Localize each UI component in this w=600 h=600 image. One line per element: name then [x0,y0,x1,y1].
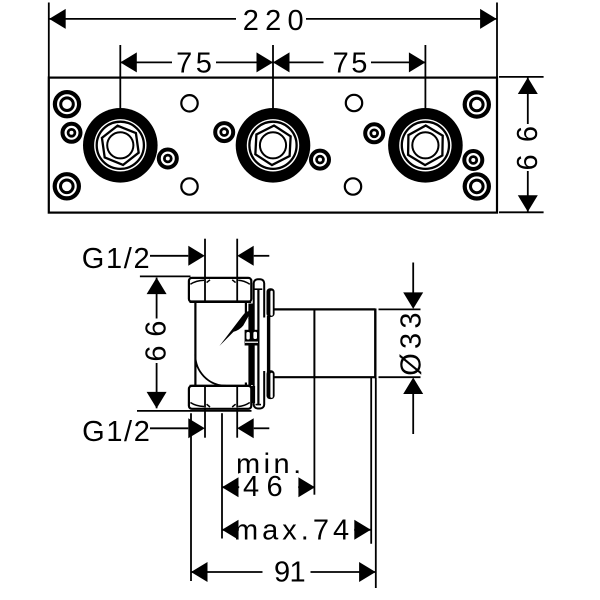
svg-text:46: 46 [243,471,290,503]
flange left black block lower [248,318,253,385]
svg-text:max.74: max.74 [234,515,353,547]
dim O33 extension top [379,308,421,310]
fitting 3 bore circle [412,132,438,158]
ring bottom-right [465,174,489,198]
screw ladder block [245,330,259,346]
fitting 1 ring circle [97,122,144,169]
valve body right edge upper segment [245,302,247,318]
fitting 2 bore circle [260,132,286,158]
dim 66 left arrow up [147,278,167,295]
plain hole bottom between 1-2 [181,178,197,194]
extension 91 right [375,378,377,588]
dim 46 line [222,486,315,488]
fitting 2 hex nut [255,125,291,166]
flange left black block upper [248,304,253,320]
top nut chamfer arcs [190,280,249,285]
svg-text:G1/2: G1/2 [82,243,152,275]
ring top-left [55,92,79,116]
fitting 2 donut [236,108,311,183]
svg-text:91: 91 [274,556,305,588]
dim 66 left arrow down [147,392,167,409]
dim 91 arrow left [191,562,208,582]
dim G1/2 top line right tail [254,255,270,257]
dim G1/2 top arrow right (points left) [237,246,254,266]
extension min-max left (valve axis) [221,413,223,538]
dim 91 line [191,571,376,573]
svg-text:66: 66 [512,114,544,171]
screw dot lower-right of fitting 1 [159,150,177,168]
plain hole top between 1-2 [181,95,197,111]
centerline fitting 2 [272,45,274,112]
dim O33 line upper [412,263,414,296]
centerline fitting 3 [424,45,426,112]
dim O33 arrow down [403,292,423,309]
flow arrow inside valve [219,311,251,346]
dim 66 left extension bottom [137,410,252,412]
dim O33 line lower [412,392,414,434]
protective sleeve right end [374,309,376,379]
G1/2 bottom extension left [204,410,206,438]
flange screw boss bottom [267,370,275,399]
protective sleeve top edge [274,308,375,310]
dim 220 extension line left [48,3,50,78]
plain hole top between 2-3 [346,95,362,111]
plate outline (top view) [49,78,497,213]
plain hole bottom between 2-3 [345,178,361,194]
dim max74 text [234,515,354,547]
dim 220 extension line right [496,3,498,78]
dim 66 right arrow down [518,195,538,212]
svg-text:220: 220 [243,5,310,37]
screw dot upper-left of fitting 2 [215,123,233,141]
dim 220 arrow right [480,9,497,29]
dim G1/2 bottom arrow left (points right) [188,418,205,438]
collar black bar between bosses [267,316,270,373]
protective sleeve bottom edge [274,376,375,378]
fitting 1 bore circle [107,132,133,158]
dim G1/2 bottom arrow right (points left) [237,418,254,438]
dim 46 arrow left [222,477,239,497]
valve body cavity arc [195,354,226,386]
protective sleeve division line [313,309,315,377]
valve body left edge [194,302,196,386]
svg-text:75: 75 [333,48,370,80]
flange left black block bottom [251,386,256,403]
svg-text:66: 66 [141,312,173,362]
valve body right edge lower segment [245,383,247,386]
dim 46 text [239,471,298,503]
dim O33 extension bottom [379,376,421,378]
fitting 1 donut [83,108,158,183]
dim 75 first arrow left [120,52,137,72]
dim 75 first arrow right [257,52,274,72]
screw dot upper-left of fitting 1 [63,124,81,142]
flange screw boss top [267,288,275,317]
svg-text:75: 75 [176,48,215,80]
dim 91 text [263,556,311,588]
dim 220 arrow left [49,9,65,29]
extension 46 right (sleeve division extended) [313,378,315,495]
dim 75 first line [120,61,273,63]
dim max74 arrow left [222,520,239,540]
valve top hex nut [189,278,251,302]
dim 46 arrow right [298,477,315,497]
ring bottom-left [55,174,79,198]
dim 91 arrow right [359,562,376,582]
dim G1/2 top arrow left (points right) [188,246,205,266]
extension 74 right [370,378,372,544]
valve bottom hex nut [189,386,251,409]
G1/2 bottom extension right [236,410,238,438]
dim 75 second arrow right [409,52,426,72]
dim 66 right arrow up [518,78,538,95]
G1/2 top extension left [204,239,206,278]
dim O33 arrow up [403,378,423,395]
dim 66 right extension bottom [499,211,544,213]
dim max74 arrow right [354,520,371,540]
fitting 2 ring circle [249,122,296,169]
valve top washer face [190,300,252,303]
dim 75 second line [273,61,425,63]
ring top-right [465,92,489,116]
dim 66 right extension top [499,76,544,78]
fitting 3 ring circle [402,122,449,169]
dim 66 left line [156,278,158,409]
dim G1/2 bottom line left [150,427,188,429]
dim 66 left extension top [140,275,191,277]
fitting 1 hex nut [101,123,140,167]
svg-text:G1/2: G1/2 [82,416,151,448]
flange inner stripe [255,289,263,404]
fitting 3 donut [388,108,463,183]
dim 66 right line [527,78,529,212]
flange right edge midsection whiteout [262,318,267,372]
screw dot upper-left of fitting 3 [365,124,383,142]
dim G1/2 bottom line right tail [254,427,270,429]
centerline fitting 1 [119,45,121,112]
bottom nut chamfer arcs [190,403,249,408]
dim 220 line [49,18,496,20]
flange outer rounded plate [254,279,265,408]
screw dot lower-right of fitting 3 [464,151,482,169]
dim max74 line [222,529,371,531]
dim 75 second arrow left [273,52,290,72]
svg-text:Ø33: Ø33 [396,308,428,375]
extension 91 left [190,413,192,581]
valve bottom washer face [190,385,252,388]
screw dot lower-right of fitting 2 [311,151,329,169]
fitting 3 hex nut [408,125,443,165]
dim G1/2 top line left [150,255,188,257]
G1/2 top extension right [236,239,238,278]
